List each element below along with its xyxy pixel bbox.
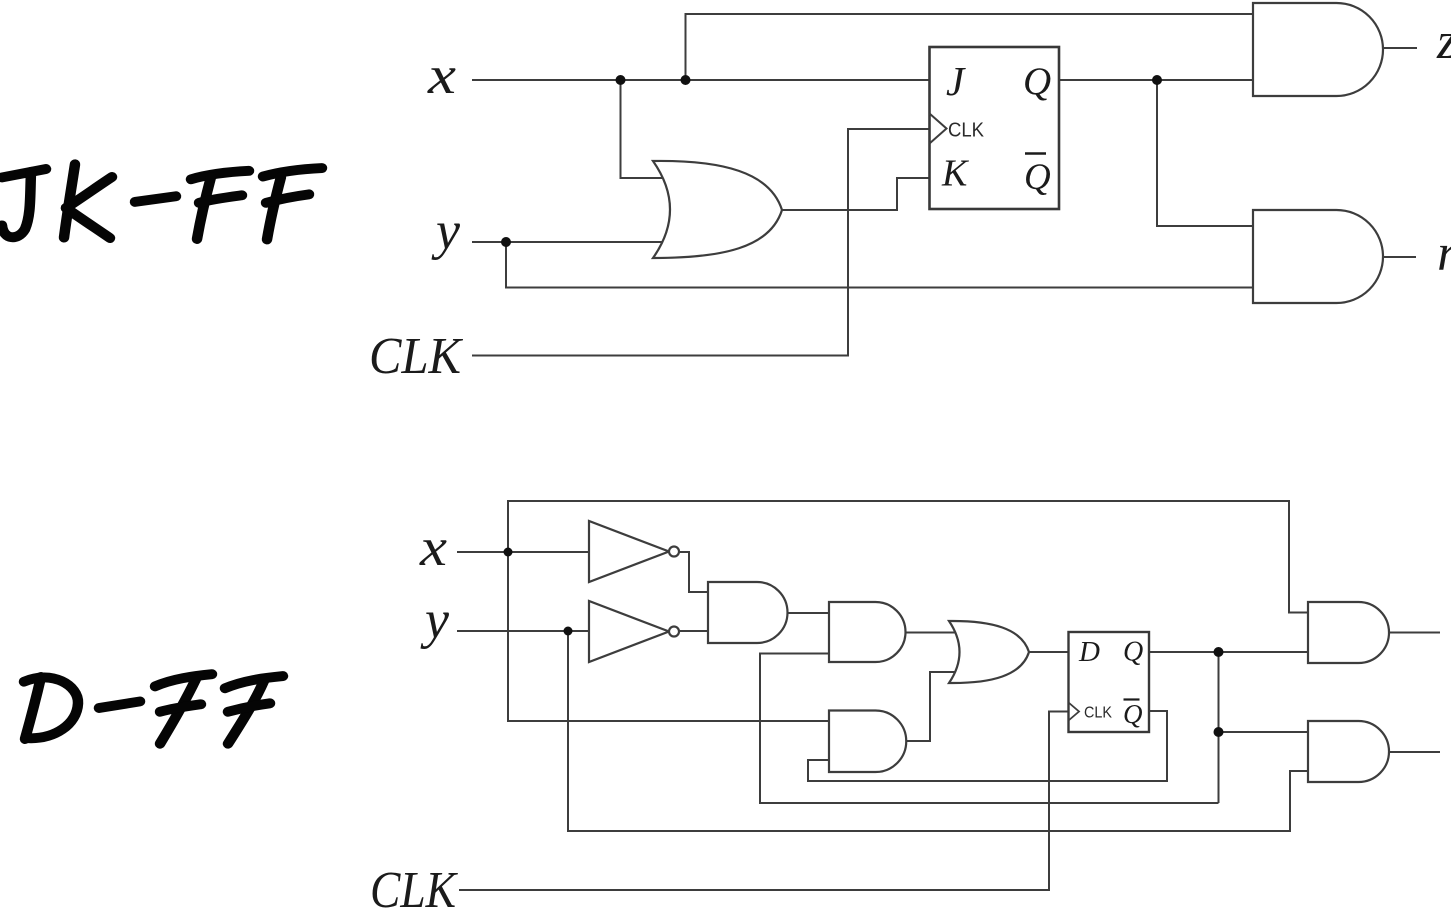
wire Q junction to AND-br top input (1219, 731, 1309, 733)
wire Q output (JK) (1059, 79, 1253, 81)
wire x branch down to OR upper input (621, 80, 667, 178)
wire x input (top circuit) (472, 79, 929, 81)
wire Q feedback to AND2 lower input (760, 654, 1219, 804)
and-gate A2 r (top circuit) (1253, 210, 1383, 303)
svg-text:Q: Q (1123, 637, 1143, 668)
flip-flop U1 JK box (930, 47, 1060, 209)
and-gate A7 (bottom, bottom right) (1308, 721, 1389, 782)
wire INV1 output to AND1 upper input (678, 552, 708, 592)
node junction dot Q (top) (1152, 75, 1162, 85)
wire z output (1382, 47, 1417, 49)
handwritten label D-FF: second F (225, 676, 283, 688)
svg-text:x: x (419, 517, 447, 577)
handwritten label JK-FF: hyphen (135, 196, 176, 202)
handwritten label D-FF: letter D (25, 677, 41, 739)
svg-text:Q: Q (1023, 60, 1051, 103)
and-gate A3 (bottom, after inverters) (708, 582, 788, 643)
svg-text:r: r (1437, 225, 1451, 282)
overbar Qbar (JK) (1025, 152, 1046, 155)
node junction dot y (top) (501, 237, 511, 247)
wire Q output (D-FF) (1149, 651, 1308, 653)
handwritten label D-FF: first F (155, 674, 212, 686)
or-gate OR2 (bottom circuit) (949, 621, 1029, 683)
and-gate A4 (bottom, middle) (829, 602, 906, 662)
node junction dot Q1 (bottom) (1214, 647, 1224, 657)
node junction dot x1 (top) (616, 75, 626, 85)
wire AND-tr output (1389, 632, 1440, 634)
wire Qbar feedback to AND3 lower input (808, 711, 1167, 781)
svg-text:CLK: CLK (369, 328, 463, 385)
wire OR2 output to D input (1029, 651, 1069, 653)
wire y input (top circuit) (472, 241, 666, 243)
inverter INV1 (bottom circuit) (589, 521, 669, 582)
wire AND3 output to OR2 bottom input (906, 672, 958, 741)
svg-text:z: z (1436, 13, 1451, 70)
wire x feedback top to AND-tr upper input (508, 501, 1308, 613)
wire AND1 output to AND2 top input (787, 612, 829, 614)
pin clk triangle (JK) (930, 114, 947, 144)
node junction dot y (bottom) (564, 627, 573, 636)
wire Q branch down with junctions (1218, 652, 1220, 803)
wire x branch down to AND3 top input (508, 552, 829, 721)
and-gate A5 (bottom, lower middle) (829, 711, 906, 773)
node junction dot Q2 (bottom) (1214, 727, 1224, 737)
wire INV2 output to AND1 lower input (678, 630, 708, 632)
handwritten label JK-FF: letter J (2, 169, 46, 177)
node junction dot x2 (top) (681, 75, 691, 85)
svg-text:D: D (1078, 636, 1100, 668)
svg-text:Q: Q (1123, 699, 1143, 729)
overbar Qbar (D) (1124, 698, 1140, 700)
svg-text:Q: Q (1024, 157, 1051, 198)
wire CLK (top circuit) (472, 129, 930, 356)
wire y input (bottom circuit) (457, 630, 589, 632)
svg-text:x: x (427, 45, 456, 105)
inverter INV2 (bottom circuit) (589, 601, 669, 662)
svg-text:CLK: CLK (370, 862, 458, 913)
and-gate A1 z (top circuit) (1253, 3, 1383, 96)
wire CLK (bottom circuit) (459, 712, 1069, 891)
wire Q branch down to r AND top input (1157, 80, 1253, 226)
wire OR1 output to K input (781, 178, 930, 210)
wire y branch to r AND lower input (506, 242, 1253, 288)
handwritten label D-FF: hyphen (99, 701, 140, 708)
handwritten label JK-FF: second F (263, 168, 322, 176)
svg-text:CLK: CLK (948, 120, 985, 142)
and-gate A6 (bottom, top right) (1308, 602, 1389, 663)
or-gate OR1 (top circuit) (653, 161, 782, 258)
wire AND2 output to OR2 top input (906, 632, 958, 634)
svg-text:y: y (431, 201, 460, 261)
handwritten label JK-FF: first F (191, 171, 249, 179)
svg-text:J: J (946, 58, 966, 104)
wire y branch to AND-br lower input (568, 631, 1308, 831)
node junction dot x (bottom) (504, 548, 513, 557)
wire x input (bottom circuit) (457, 551, 589, 553)
wire x branch up to z AND top input (686, 14, 1254, 80)
wire r output (1383, 256, 1416, 258)
svg-text:K: K (941, 153, 969, 195)
handwritten label JK-FF: letter K (64, 164, 75, 237)
svg-text:y: y (420, 590, 449, 650)
flip-flop U2 D box (1069, 632, 1150, 732)
pin clk triangle (D) (1069, 703, 1080, 721)
svg-text:CLK: CLK (1084, 705, 1112, 722)
wire AND-br output (1389, 751, 1440, 753)
